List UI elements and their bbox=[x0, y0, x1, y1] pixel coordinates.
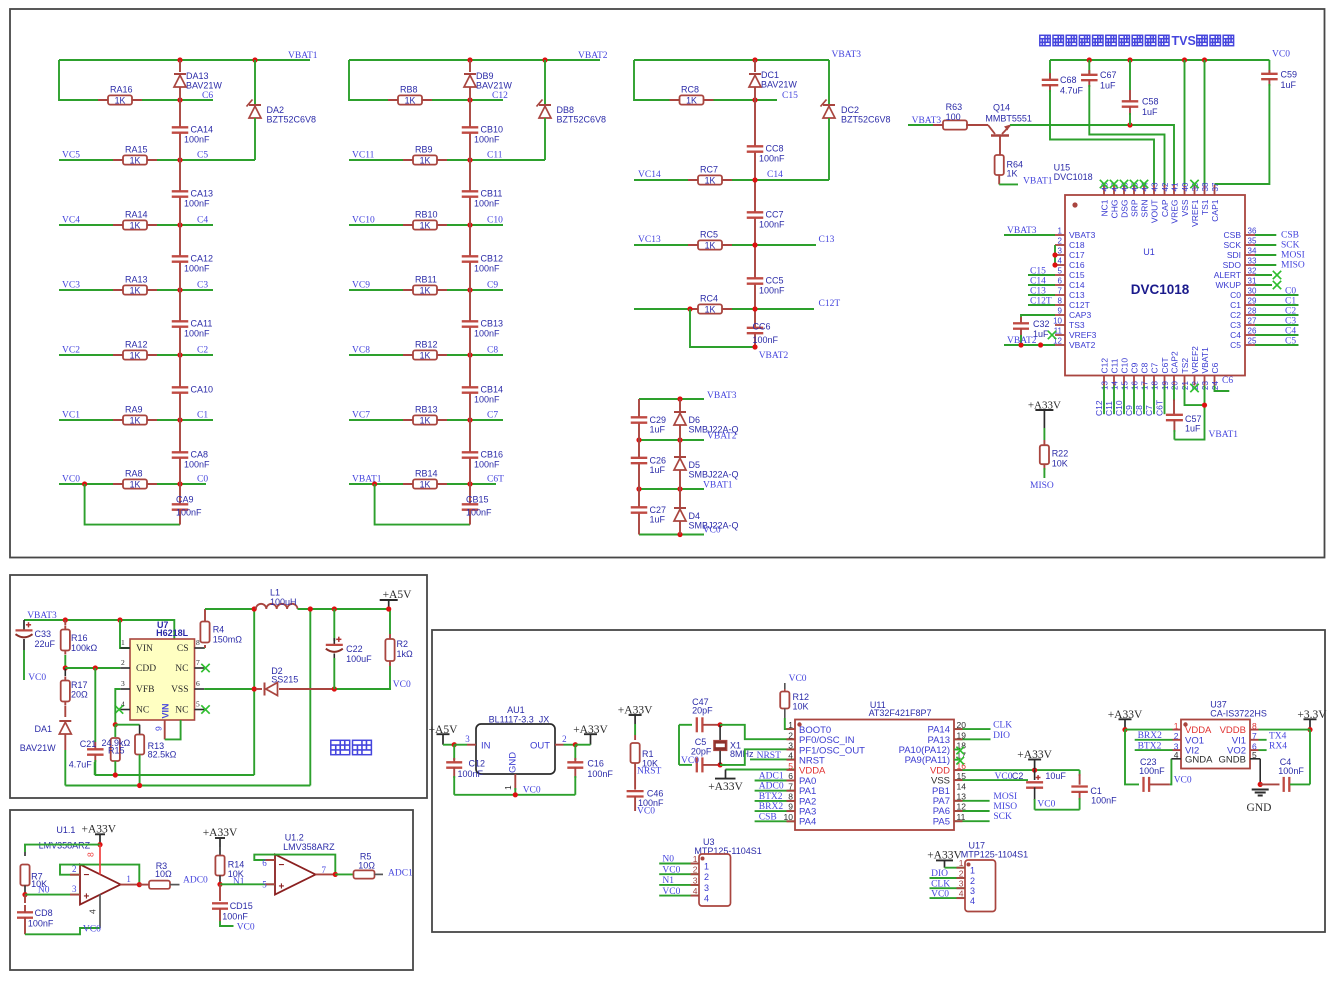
svg-text:+A33V: +A33V bbox=[81, 824, 116, 836]
svg-text:C6: C6 bbox=[1222, 376, 1233, 386]
svg-text:CB15: CB15 bbox=[466, 495, 489, 505]
svg-text:100nF: 100nF bbox=[1091, 796, 1117, 806]
svg-text:C9: C9 bbox=[1130, 362, 1140, 373]
svg-text:C57: C57 bbox=[1185, 414, 1202, 424]
svg-text:C5: C5 bbox=[1230, 340, 1241, 350]
svg-text:10Ω: 10Ω bbox=[358, 861, 375, 871]
svg-text:100uF: 100uF bbox=[346, 654, 372, 664]
svg-text:C15: C15 bbox=[1030, 267, 1046, 277]
svg-text:+: + bbox=[84, 892, 90, 903]
svg-text:CA8: CA8 bbox=[191, 450, 209, 460]
svg-text:CLK: CLK bbox=[993, 721, 1012, 731]
svg-text:MTP125-1104S1: MTP125-1104S1 bbox=[961, 850, 1028, 860]
svg-text:C6: C6 bbox=[1210, 362, 1220, 373]
svg-text:R16: R16 bbox=[71, 633, 88, 643]
svg-text:1K: 1K bbox=[405, 95, 416, 105]
svg-text:CAP2: CAP2 bbox=[1170, 351, 1180, 373]
svg-text:DIO: DIO bbox=[931, 869, 948, 879]
svg-text:GNDA: GNDA bbox=[1185, 754, 1213, 765]
svg-text:20pF: 20pF bbox=[692, 706, 713, 716]
svg-text:C6T: C6T bbox=[487, 475, 504, 485]
svg-text:RC5: RC5 bbox=[700, 230, 718, 240]
svg-text:CLK: CLK bbox=[931, 879, 950, 889]
svg-text:C5: C5 bbox=[197, 151, 208, 161]
svg-text:4: 4 bbox=[959, 889, 964, 899]
svg-text:4.7uF: 4.7uF bbox=[1060, 86, 1084, 96]
svg-text:CB10: CB10 bbox=[481, 125, 504, 135]
svg-text:MISO: MISO bbox=[1030, 481, 1054, 491]
svg-text:DB9: DB9 bbox=[476, 71, 494, 81]
svg-text:GNDB: GNDB bbox=[1219, 754, 1246, 765]
svg-text:2: 2 bbox=[121, 658, 125, 667]
svg-text:C10: C10 bbox=[1120, 358, 1130, 374]
svg-text:R17: R17 bbox=[71, 680, 88, 690]
svg-text:VC0: VC0 bbox=[1037, 800, 1055, 810]
svg-text:18: 18 bbox=[1151, 381, 1160, 390]
svg-text:VC8: VC8 bbox=[352, 346, 370, 356]
svg-text:AT32F421F8P7: AT32F421F8P7 bbox=[869, 708, 932, 718]
svg-text:BAV21W: BAV21W bbox=[476, 81, 512, 91]
svg-text:C58: C58 bbox=[1142, 97, 1159, 107]
svg-text:37: 37 bbox=[1211, 182, 1220, 191]
svg-text:3: 3 bbox=[121, 679, 125, 688]
svg-text:1uF: 1uF bbox=[1142, 107, 1158, 117]
svg-text:100nF: 100nF bbox=[222, 912, 248, 922]
svg-text:VREF3: VREF3 bbox=[1069, 330, 1097, 340]
svg-text:OUT: OUT bbox=[530, 741, 550, 752]
svg-text:C8: C8 bbox=[487, 346, 498, 356]
svg-text:CC5: CC5 bbox=[766, 276, 784, 286]
svg-text:VC0: VC0 bbox=[237, 923, 255, 933]
svg-text:4: 4 bbox=[88, 909, 98, 914]
svg-text:4: 4 bbox=[693, 886, 698, 896]
svg-text:PA5: PA5 bbox=[933, 816, 950, 827]
svg-text:TS1: TS1 bbox=[1200, 199, 1210, 215]
svg-text:SMBJ22A-Q: SMBJ22A-Q bbox=[689, 425, 739, 435]
svg-text:2: 2 bbox=[1058, 237, 1063, 246]
svg-text:10: 10 bbox=[1053, 317, 1062, 326]
svg-text:100nF: 100nF bbox=[176, 508, 202, 518]
svg-text:1K: 1K bbox=[130, 285, 141, 295]
svg-text:1uF: 1uF bbox=[1100, 81, 1116, 91]
svg-text:100nF: 100nF bbox=[474, 135, 500, 145]
svg-text:3: 3 bbox=[959, 879, 964, 889]
svg-text:2: 2 bbox=[72, 864, 77, 874]
svg-text:TX4: TX4 bbox=[1269, 732, 1287, 742]
svg-text:CSB: CSB bbox=[1224, 230, 1242, 240]
svg-text:23: 23 bbox=[1201, 381, 1210, 390]
svg-text:MOSI: MOSI bbox=[1281, 251, 1305, 261]
svg-text:1: 1 bbox=[970, 866, 975, 876]
svg-text:−: − bbox=[279, 860, 285, 871]
svg-text:ADC0: ADC0 bbox=[759, 782, 784, 792]
svg-text:NRST: NRST bbox=[757, 751, 781, 761]
svg-text:C9: C9 bbox=[1124, 405, 1134, 416]
svg-text:VC0: VC0 bbox=[662, 865, 680, 875]
svg-text:BTX2: BTX2 bbox=[759, 792, 783, 802]
svg-text:D5: D5 bbox=[689, 460, 701, 470]
svg-text:RA8: RA8 bbox=[125, 469, 143, 479]
svg-text:VC10: VC10 bbox=[352, 216, 375, 226]
svg-text:RX4: RX4 bbox=[1269, 742, 1287, 752]
svg-text:C1: C1 bbox=[1090, 786, 1102, 796]
svg-text:100nF: 100nF bbox=[466, 508, 492, 518]
svg-text:1: 1 bbox=[693, 854, 698, 864]
svg-text:C4: C4 bbox=[1230, 330, 1241, 340]
svg-text:CB11: CB11 bbox=[481, 189, 503, 199]
svg-text:CA13: CA13 bbox=[191, 189, 214, 199]
svg-text:VC0: VC0 bbox=[28, 673, 46, 683]
svg-text:1K: 1K bbox=[115, 95, 126, 105]
svg-text:−: − bbox=[84, 870, 90, 881]
svg-text:MMBT5551: MMBT5551 bbox=[985, 114, 1032, 124]
svg-text:C15: C15 bbox=[782, 91, 798, 101]
svg-text:VREG: VREG bbox=[1170, 200, 1180, 224]
svg-text:CD8: CD8 bbox=[35, 908, 53, 918]
svg-text:C6: C6 bbox=[202, 91, 213, 101]
svg-text:1K: 1K bbox=[130, 415, 141, 425]
svg-text:C8: C8 bbox=[1134, 405, 1144, 416]
svg-text:100nF: 100nF bbox=[474, 199, 500, 209]
svg-text:8: 8 bbox=[196, 638, 200, 647]
svg-text:CAP: CAP bbox=[1160, 199, 1170, 217]
svg-text:C13: C13 bbox=[1030, 287, 1046, 297]
svg-text:CHG: CHG bbox=[1110, 200, 1120, 219]
svg-text:CA-IS3722HS: CA-IS3722HS bbox=[1210, 709, 1267, 719]
svg-text:DC2: DC2 bbox=[841, 105, 859, 115]
svg-text:100nF: 100nF bbox=[759, 286, 785, 296]
svg-text:N0: N0 bbox=[662, 855, 674, 865]
svg-text:U1.2: U1.2 bbox=[285, 833, 304, 843]
svg-text:C10: C10 bbox=[487, 216, 503, 226]
svg-text:6: 6 bbox=[262, 858, 267, 868]
svg-text:BAV21W: BAV21W bbox=[761, 80, 797, 90]
svg-text:14: 14 bbox=[1111, 381, 1120, 390]
svg-text:C10: C10 bbox=[1114, 400, 1124, 416]
svg-text:1: 1 bbox=[503, 785, 513, 790]
svg-text:VC13: VC13 bbox=[638, 235, 661, 245]
svg-text:VC0: VC0 bbox=[62, 475, 80, 485]
svg-text:100nF: 100nF bbox=[587, 769, 613, 779]
svg-text:C14: C14 bbox=[1030, 277, 1046, 287]
svg-text:CA9: CA9 bbox=[176, 495, 194, 505]
svg-text:1uF: 1uF bbox=[650, 465, 666, 475]
svg-text:C13: C13 bbox=[1069, 290, 1085, 300]
svg-text:GND: GND bbox=[1247, 802, 1272, 814]
svg-text:ADC1: ADC1 bbox=[759, 772, 784, 782]
svg-text:RA12: RA12 bbox=[125, 340, 148, 350]
svg-text:VC0: VC0 bbox=[931, 889, 949, 899]
svg-text:C3: C3 bbox=[1285, 317, 1296, 327]
svg-text:+: + bbox=[279, 882, 285, 893]
svg-text:VBAT1: VBAT1 bbox=[1200, 347, 1210, 374]
svg-text:+3.3V: +3.3V bbox=[1297, 709, 1327, 721]
svg-text:DVC1018: DVC1018 bbox=[1131, 282, 1190, 297]
svg-text:100nF: 100nF bbox=[1278, 766, 1304, 776]
svg-text:100nF: 100nF bbox=[474, 329, 500, 339]
svg-text:1K: 1K bbox=[130, 155, 141, 165]
svg-text:VC0: VC0 bbox=[1174, 776, 1192, 786]
svg-text:C1: C1 bbox=[1285, 297, 1296, 307]
svg-text:VC0: VC0 bbox=[393, 680, 411, 690]
svg-text:1kΩ: 1kΩ bbox=[397, 649, 414, 659]
svg-text:U1.1: U1.1 bbox=[56, 825, 75, 835]
svg-text:6: 6 bbox=[196, 679, 200, 688]
svg-text:BAV21W: BAV21W bbox=[186, 81, 222, 91]
svg-text:LMV358ARZ: LMV358ARZ bbox=[283, 842, 335, 852]
svg-text:C12: C12 bbox=[469, 759, 486, 769]
svg-text:CSB: CSB bbox=[1281, 231, 1299, 241]
svg-text:1: 1 bbox=[1058, 227, 1063, 236]
svg-text:20Ω: 20Ω bbox=[71, 690, 88, 700]
svg-text:CA14: CA14 bbox=[191, 125, 214, 135]
svg-text:10uF: 10uF bbox=[1045, 771, 1066, 781]
svg-text:RC4: RC4 bbox=[700, 294, 718, 304]
svg-text:7: 7 bbox=[322, 865, 327, 875]
svg-text:3: 3 bbox=[704, 883, 709, 893]
svg-text:19: 19 bbox=[1161, 381, 1170, 390]
svg-text:CB14: CB14 bbox=[481, 385, 504, 395]
svg-text:+A33V: +A33V bbox=[1028, 400, 1061, 412]
svg-text:1K: 1K bbox=[1007, 169, 1018, 179]
svg-text:10Ω: 10Ω bbox=[155, 869, 172, 879]
svg-text:C12T: C12T bbox=[1030, 297, 1052, 307]
svg-text:C5: C5 bbox=[695, 737, 707, 747]
svg-text:9: 9 bbox=[154, 726, 164, 731]
svg-text:RA14: RA14 bbox=[125, 210, 148, 220]
svg-text:C6T: C6T bbox=[1155, 400, 1165, 416]
svg-text:VBAT2: VBAT2 bbox=[1007, 336, 1037, 346]
svg-text:100nF: 100nF bbox=[1139, 766, 1165, 776]
svg-text:BRX2: BRX2 bbox=[759, 802, 784, 812]
svg-text:ADC1: ADC1 bbox=[388, 869, 413, 879]
svg-text:100nF: 100nF bbox=[28, 918, 54, 928]
svg-text:NC: NC bbox=[136, 706, 149, 716]
svg-text:3: 3 bbox=[693, 875, 698, 885]
svg-text:1uF: 1uF bbox=[1281, 80, 1297, 90]
svg-text:VIN: VIN bbox=[136, 644, 153, 654]
svg-text:2: 2 bbox=[970, 876, 975, 886]
svg-text:C2: C2 bbox=[197, 346, 208, 356]
svg-text:RA9: RA9 bbox=[125, 405, 143, 415]
svg-text:C32: C32 bbox=[1033, 319, 1050, 329]
svg-text:MISO: MISO bbox=[1281, 261, 1305, 271]
svg-text:1K: 1K bbox=[130, 479, 141, 489]
svg-text:RB9: RB9 bbox=[415, 145, 433, 155]
svg-text:VC7: VC7 bbox=[352, 411, 370, 421]
svg-text:1K: 1K bbox=[420, 285, 431, 295]
svg-text:RB11: RB11 bbox=[415, 275, 437, 285]
svg-text:NRST: NRST bbox=[637, 767, 661, 777]
svg-text:VREF2: VREF2 bbox=[1190, 346, 1200, 374]
svg-text:C2: C2 bbox=[1230, 310, 1241, 320]
svg-text:VREF1: VREF1 bbox=[1190, 199, 1200, 227]
svg-text:ALERT: ALERT bbox=[1214, 270, 1241, 280]
svg-text:VBAT2: VBAT2 bbox=[759, 351, 789, 361]
svg-text:+A33V: +A33V bbox=[1017, 749, 1052, 761]
svg-text:C7: C7 bbox=[487, 411, 498, 421]
svg-text:BTX2: BTX2 bbox=[1138, 741, 1162, 751]
svg-text:+A33V: +A33V bbox=[203, 827, 238, 839]
svg-text:41: 41 bbox=[1171, 182, 1180, 191]
svg-text:RB14: RB14 bbox=[415, 469, 438, 479]
svg-text:C7: C7 bbox=[1150, 362, 1160, 373]
svg-text:SRP: SRP bbox=[1130, 199, 1140, 217]
svg-text:VBAT2: VBAT2 bbox=[578, 51, 608, 61]
svg-text:C4: C4 bbox=[1285, 327, 1296, 337]
svg-text:100nF: 100nF bbox=[474, 460, 500, 470]
svg-text:VBAT3: VBAT3 bbox=[1069, 230, 1096, 240]
svg-text:DA13: DA13 bbox=[186, 71, 209, 81]
svg-text:R12: R12 bbox=[793, 692, 810, 702]
svg-text:100nF: 100nF bbox=[184, 329, 210, 339]
svg-text:100nF: 100nF bbox=[184, 135, 210, 145]
svg-text:SDI: SDI bbox=[1227, 250, 1241, 260]
svg-text:C68: C68 bbox=[1060, 75, 1077, 85]
svg-text:BRX2: BRX2 bbox=[1138, 731, 1163, 741]
svg-text:20: 20 bbox=[1171, 381, 1180, 390]
svg-text:10K: 10K bbox=[793, 702, 809, 712]
svg-text:3: 3 bbox=[465, 734, 470, 744]
svg-text:C1: C1 bbox=[197, 411, 208, 421]
svg-text:C7: C7 bbox=[1144, 405, 1154, 416]
svg-text:7: 7 bbox=[1058, 287, 1063, 296]
svg-text:VBAT1: VBAT1 bbox=[288, 51, 318, 61]
svg-text:VBAT1: VBAT1 bbox=[1209, 430, 1239, 440]
svg-text:RA13: RA13 bbox=[125, 275, 148, 285]
svg-text:C12T: C12T bbox=[819, 299, 841, 309]
svg-text:R1: R1 bbox=[642, 749, 654, 759]
svg-text:SCK: SCK bbox=[1281, 241, 1300, 251]
svg-text:VBAT3: VBAT3 bbox=[832, 50, 862, 60]
svg-text:7: 7 bbox=[196, 658, 200, 667]
svg-text:8MHz: 8MHz bbox=[730, 749, 754, 759]
svg-text:C11: C11 bbox=[1104, 401, 1114, 416]
svg-text:100nF: 100nF bbox=[759, 220, 785, 230]
svg-text:40: 40 bbox=[1181, 182, 1190, 191]
svg-text:BL1117-3.3_JX: BL1117-3.3_JX bbox=[489, 714, 550, 724]
svg-text:VC0: VC0 bbox=[83, 925, 101, 935]
svg-text:LMV358ARZ: LMV358ARZ bbox=[39, 841, 91, 851]
svg-text:C8: C8 bbox=[1140, 362, 1150, 373]
svg-text:VC0: VC0 bbox=[662, 887, 680, 897]
svg-text:VBAT3: VBAT3 bbox=[707, 391, 737, 401]
svg-text:N1: N1 bbox=[662, 876, 674, 886]
svg-text:CA12: CA12 bbox=[191, 254, 214, 264]
svg-text:SS215: SS215 bbox=[271, 675, 298, 685]
svg-text:5: 5 bbox=[196, 700, 200, 709]
svg-text:SDO: SDO bbox=[1223, 260, 1242, 270]
svg-text:1: 1 bbox=[121, 638, 125, 647]
svg-text:1: 1 bbox=[959, 858, 964, 868]
svg-text:VSS: VSS bbox=[171, 685, 188, 695]
svg-text:15: 15 bbox=[1121, 381, 1130, 390]
svg-text:+A5V: +A5V bbox=[383, 589, 413, 601]
svg-text:C15: C15 bbox=[1069, 270, 1085, 280]
svg-text:CAP3: CAP3 bbox=[1069, 310, 1091, 320]
svg-text:8: 8 bbox=[86, 852, 96, 857]
svg-text:C11: C11 bbox=[487, 151, 503, 161]
svg-text:100nF: 100nF bbox=[759, 154, 785, 164]
svg-text:DIO: DIO bbox=[993, 731, 1010, 741]
svg-text:CC6: CC6 bbox=[753, 322, 771, 332]
svg-text:MOSI: MOSI bbox=[993, 792, 1017, 802]
svg-text:1K: 1K bbox=[130, 350, 141, 360]
svg-text:TS3: TS3 bbox=[1069, 320, 1085, 330]
svg-text:8: 8 bbox=[1058, 297, 1063, 306]
svg-text:C18: C18 bbox=[1069, 240, 1085, 250]
svg-text:1K: 1K bbox=[705, 175, 716, 185]
svg-text:VBAT2: VBAT2 bbox=[1069, 340, 1096, 350]
svg-text:VC2: VC2 bbox=[62, 346, 80, 356]
svg-text:R2: R2 bbox=[397, 639, 409, 649]
svg-text:+A33V: +A33V bbox=[618, 705, 653, 717]
svg-text:+A33V: +A33V bbox=[708, 781, 743, 793]
svg-text:100nF: 100nF bbox=[458, 769, 484, 779]
svg-text:38: 38 bbox=[1201, 182, 1210, 191]
svg-text:BZT52C6V8: BZT52C6V8 bbox=[841, 115, 891, 125]
svg-text:1uF: 1uF bbox=[1185, 424, 1201, 434]
svg-text:N1: N1 bbox=[233, 877, 245, 887]
svg-text:BZT52C6V8: BZT52C6V8 bbox=[267, 115, 317, 125]
svg-text:VC4: VC4 bbox=[62, 216, 80, 226]
svg-text:RC7: RC7 bbox=[700, 165, 718, 175]
svg-text:C16: C16 bbox=[587, 759, 604, 769]
svg-text:C3: C3 bbox=[197, 281, 208, 291]
svg-text:1K: 1K bbox=[420, 415, 431, 425]
svg-text:C67: C67 bbox=[1100, 70, 1117, 80]
svg-text:4: 4 bbox=[1058, 257, 1063, 266]
svg-text:Q14: Q14 bbox=[993, 103, 1010, 113]
svg-text:NC: NC bbox=[175, 664, 188, 674]
svg-text:C9: C9 bbox=[487, 281, 498, 291]
svg-text:1K: 1K bbox=[420, 479, 431, 489]
svg-text:20pF: 20pF bbox=[691, 747, 712, 757]
svg-text:R63: R63 bbox=[946, 102, 963, 112]
svg-text:42: 42 bbox=[1161, 182, 1170, 191]
svg-text:CB12: CB12 bbox=[481, 254, 504, 264]
svg-text:9: 9 bbox=[1058, 307, 1063, 316]
svg-text:1: 1 bbox=[704, 862, 709, 872]
svg-text:PA4: PA4 bbox=[799, 817, 816, 828]
svg-text:100uH: 100uH bbox=[270, 597, 297, 607]
svg-text:R15: R15 bbox=[108, 746, 125, 756]
svg-text:VBAT3: VBAT3 bbox=[1007, 226, 1037, 236]
svg-text:100nF: 100nF bbox=[184, 460, 210, 470]
svg-text:VBAT1: VBAT1 bbox=[1023, 177, 1053, 187]
svg-text:SMBJ22A-Q: SMBJ22A-Q bbox=[689, 470, 739, 480]
svg-text:RB8: RB8 bbox=[400, 85, 418, 95]
svg-text:VC9: VC9 bbox=[352, 281, 370, 291]
svg-text:U1: U1 bbox=[1143, 247, 1155, 257]
svg-text:C5: C5 bbox=[1285, 337, 1296, 347]
svg-text:R22: R22 bbox=[1052, 449, 1069, 459]
svg-text:2: 2 bbox=[693, 865, 698, 875]
svg-text:R14: R14 bbox=[228, 860, 245, 870]
svg-text:C13: C13 bbox=[819, 235, 835, 245]
svg-text:100nF: 100nF bbox=[753, 335, 779, 345]
svg-text:1K: 1K bbox=[130, 220, 141, 230]
svg-text:C46: C46 bbox=[647, 789, 664, 799]
svg-text:C12: C12 bbox=[1100, 358, 1110, 374]
svg-text:BZT52C6V8: BZT52C6V8 bbox=[557, 115, 607, 125]
svg-text:NC1: NC1 bbox=[1100, 199, 1110, 216]
svg-text:WKUP: WKUP bbox=[1216, 280, 1242, 290]
svg-text:DC1: DC1 bbox=[761, 70, 779, 80]
svg-text:C6T: C6T bbox=[1160, 357, 1170, 373]
svg-text:IN: IN bbox=[481, 741, 491, 752]
svg-text:C11: C11 bbox=[1110, 358, 1120, 373]
